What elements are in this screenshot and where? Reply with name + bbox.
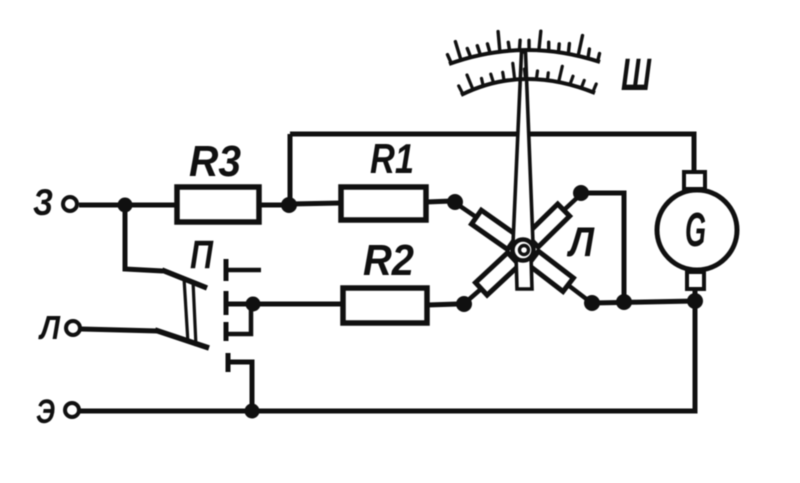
- wire: terminal L to wiper: [81, 329, 158, 331]
- meter scale inner ticks: [459, 63, 597, 94]
- wire: junction B to R1: [290, 203, 341, 204]
- wire: R3 to junction B: [259, 203, 290, 208]
- switch P wiper top bar: [162, 270, 207, 288]
- wire: rotor bottom bus to G bottom: [592, 301, 695, 303]
- wire: top rail to G top: [290, 134, 694, 173]
- wire: terminal 3 to junction A: [79, 203, 124, 208]
- contact dot upper-left: [447, 194, 463, 210]
- svg-text:З: З: [33, 182, 53, 223]
- node D junction dot on bottom rail: [245, 404, 260, 419]
- wire: R2 to rotor lower-left contact: [427, 304, 458, 305]
- wire: junction A to R3: [125, 203, 177, 208]
- switch contact 4 bar: [226, 353, 231, 372]
- switch contact 1 lead (stub): [227, 268, 261, 273]
- rotor arm upper-right: [526, 204, 569, 247]
- svg-text:Л: Л: [38, 309, 61, 346]
- wire: R1 to rotor upper-left contact: [426, 201, 452, 202]
- rotor contact lead upper-right: [564, 196, 579, 210]
- galvanometer G body: [657, 190, 737, 270]
- svg-text:П: П: [190, 233, 214, 277]
- node A junction dot: [118, 198, 133, 213]
- rotor arm lower-left: [476, 253, 520, 296]
- switch contact 3 lead: [227, 306, 251, 334]
- switch P wiper rail 1: [184, 278, 188, 343]
- svg-text:Л: Л: [566, 218, 595, 265]
- terminal 3 (left input): [63, 197, 77, 211]
- svg-text:G: G: [685, 204, 706, 257]
- rotor arm lower-right: [528, 251, 573, 291]
- wire: contact 4 down to bottom rail: [229, 362, 252, 411]
- svg-text:R1: R1: [370, 135, 414, 182]
- junction dot under G: [687, 293, 703, 309]
- switch P wiper bottom bar: [155, 330, 209, 348]
- needle tail: [516, 255, 532, 289]
- rotor contact lead upper-left: [457, 204, 476, 217]
- terminal E (bottom left): [65, 403, 79, 417]
- wire: G bottom down to bottom rail: [80, 289, 695, 411]
- switch contact 1 bar: [224, 259, 229, 281]
- meter scale outer ticks: [448, 31, 600, 63]
- galvanometer G top terminal: [684, 172, 705, 189]
- rotor contact lead lower-left: [466, 289, 481, 302]
- svg-text:Э: Э: [36, 393, 55, 431]
- rotor contact lead lower-right: [568, 285, 589, 301]
- contact dot upper-right: [573, 185, 589, 201]
- wire: contact 2 to R2: [227, 302, 343, 307]
- node C junction dot (contact bus): [246, 297, 261, 312]
- resistor R2: [343, 288, 427, 323]
- svg-text:Ш: Ш: [621, 49, 652, 100]
- contact dot lower-right: [584, 295, 600, 311]
- wire: junction B up to top rail: [288, 134, 293, 205]
- wire: junction A down to switch wiper: [125, 205, 163, 271]
- galvanometer G bottom terminal: [687, 272, 704, 289]
- meter scale outer arc: [449, 50, 600, 64]
- contact dot lower-left: [456, 296, 472, 312]
- svg-text:R3: R3: [189, 137, 241, 186]
- wire: upper-right dot over and down: [584, 193, 624, 302]
- resistor R1: [341, 187, 426, 220]
- switch P wiper rail 2: [193, 281, 196, 346]
- switch contact 3 bar: [224, 322, 229, 341]
- rotor arm upper-left: [472, 210, 518, 249]
- junction dot on bottom bus: [616, 294, 632, 310]
- node B junction dot: [281, 197, 297, 213]
- svg-text:R2: R2: [363, 236, 414, 285]
- rotor hub: [513, 240, 534, 261]
- meter needle (outlined shaft): [513, 52, 533, 243]
- switch contact 2 bar: [224, 291, 229, 315]
- meter scale inner arc: [461, 79, 595, 95]
- terminal L (left): [66, 321, 80, 335]
- resistor R3: [177, 187, 259, 222]
